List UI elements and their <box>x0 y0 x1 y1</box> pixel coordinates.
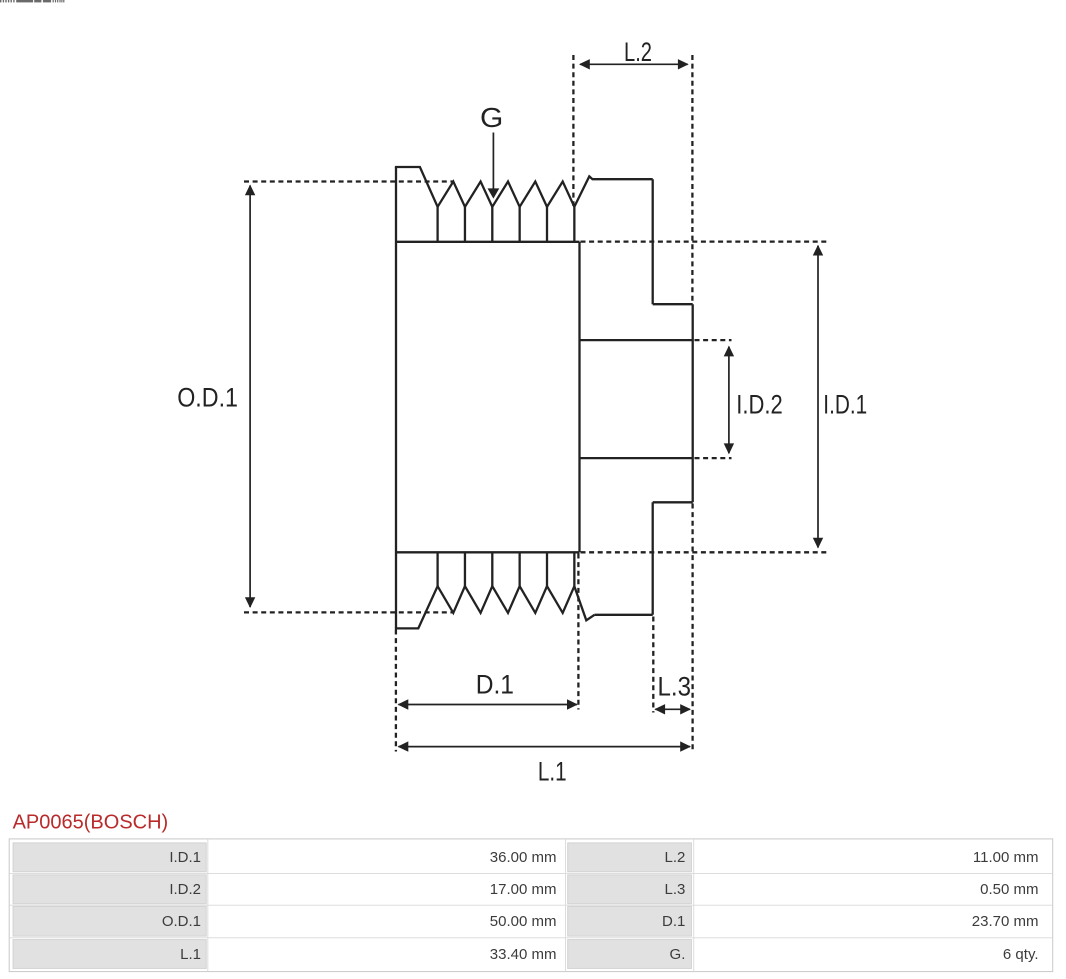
dimension L.2 line <box>580 63 688 65</box>
svg-text:33.40 mm: 33.40 mm <box>490 946 557 963</box>
pulley bottom lip <box>395 586 438 628</box>
extension dashed L.2 left <box>572 55 574 206</box>
svg-text:L.2: L.2 <box>624 37 652 67</box>
dimension I.D.2 line <box>728 347 730 454</box>
table label cells column 2 <box>568 843 692 968</box>
pulley bottom groove teeth <box>438 586 575 613</box>
svg-text:50.00 mm: 50.00 mm <box>490 913 557 930</box>
svg-text:L.3: L.3 <box>665 881 686 898</box>
svg-text:L.2: L.2 <box>665 849 686 866</box>
dimension I.D.1 line <box>817 246 819 548</box>
svg-text:L.3: L.3 <box>658 672 692 702</box>
extension dashed I.D.1 top <box>581 240 827 242</box>
logo remnant top-left <box>0 0 64 2</box>
svg-text:D.1: D.1 <box>662 913 685 930</box>
top groove valley drops <box>438 207 575 242</box>
extension dashed D.1 right <box>577 554 579 710</box>
svg-text:17.00 mm: 17.00 mm <box>490 881 557 898</box>
svg-text:I.D.2: I.D.2 <box>169 881 201 898</box>
dimension L.3 line <box>655 708 690 710</box>
dimension G leader arrow <box>492 133 494 191</box>
bottom groove valley drops <box>438 552 575 586</box>
hub bottom-left vertical <box>652 502 654 615</box>
bore top line <box>580 339 693 341</box>
extension dashed L.1 right <box>691 504 693 751</box>
hub top step <box>653 303 693 305</box>
hub bottom step <box>653 501 693 503</box>
svg-text:G: G <box>480 102 503 133</box>
spec table frame <box>9 839 1053 972</box>
body right vertical <box>578 242 580 553</box>
svg-text:6 qty.: 6 qty. <box>1003 946 1039 963</box>
pulley top lip <box>395 167 438 207</box>
svg-text:23.70 mm: 23.70 mm <box>972 913 1039 930</box>
dimension D.1 line <box>399 704 577 706</box>
extension dashed O.D.1 top <box>244 180 454 182</box>
hub top-left vertical <box>652 179 654 304</box>
svg-text:11.00 mm: 11.00 mm <box>973 849 1039 866</box>
dimension L.1 line <box>399 746 691 748</box>
svg-text:D.1: D.1 <box>476 669 514 699</box>
top right slope to hub <box>574 176 652 206</box>
svg-text:I.D.1: I.D.1 <box>169 849 201 866</box>
extension dashed I.D.1 bottom <box>581 551 827 553</box>
table texts <box>162 849 1039 963</box>
pulley left edge <box>395 167 397 628</box>
svg-text:36.00 mm: 36.00 mm <box>490 849 557 866</box>
rim base bottom line <box>396 551 580 553</box>
extension dashed L.2 right <box>691 55 693 303</box>
svg-text:L.1: L.1 <box>538 757 567 787</box>
bottom flat right <box>595 614 653 616</box>
svg-text:AP0065(BOSCH): AP0065(BOSCH) <box>13 811 169 833</box>
bottom right slope jag <box>574 586 594 620</box>
extension dashed D.1 left <box>395 630 397 752</box>
dimension O.D.1 line <box>249 186 251 608</box>
svg-text:O.D.1: O.D.1 <box>177 382 238 412</box>
bore bottom line <box>580 457 693 459</box>
svg-text:O.D.1: O.D.1 <box>162 913 201 930</box>
table label cells column 1 <box>13 843 206 968</box>
extension dashed O.D.1 bottom <box>244 611 454 613</box>
rim base top line <box>396 241 580 243</box>
hub right face <box>692 304 694 502</box>
svg-text:0.50 mm: 0.50 mm <box>980 881 1038 898</box>
pulley top groove teeth <box>438 182 575 207</box>
svg-text:I.D.2: I.D.2 <box>736 390 783 420</box>
svg-text:I.D.1: I.D.1 <box>823 390 867 420</box>
svg-text:G.: G. <box>670 946 686 963</box>
extension dashed I.D.2 bottom <box>695 457 732 459</box>
extension dashed I.D.2 top <box>695 339 732 341</box>
table inner grid lines <box>10 839 1053 971</box>
extension dashed L.3 left <box>652 617 654 713</box>
svg-text:L.1: L.1 <box>180 946 201 963</box>
